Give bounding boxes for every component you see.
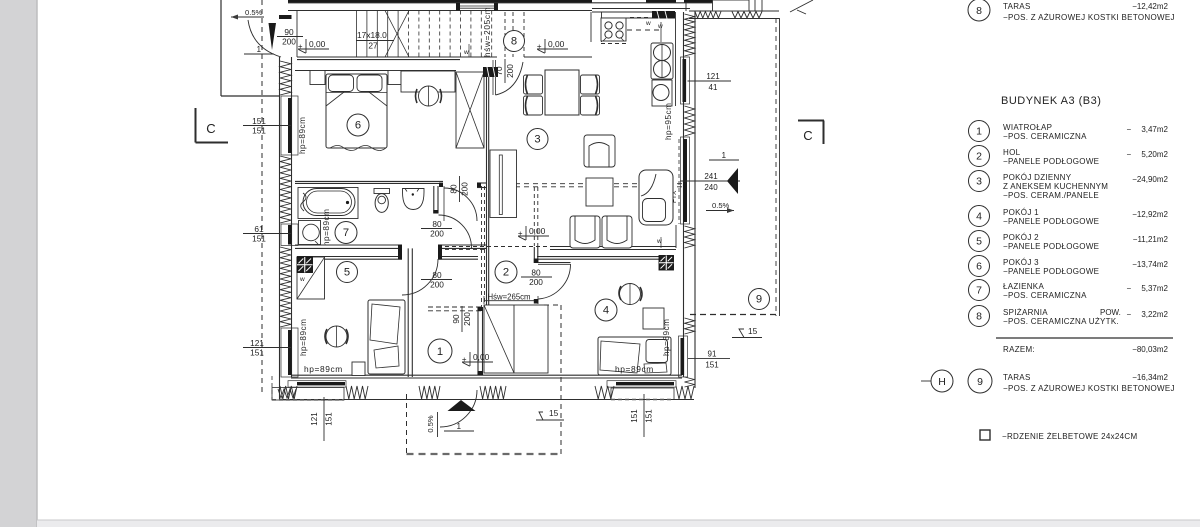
legend row2 hol [969,146,990,167]
bath toilet [374,189,390,194]
svg-text:0.5%: 0.5% [712,201,730,210]
living chair tl [524,75,543,94]
top wall black band seg2 [646,0,676,3]
left wall outer line [279,57,281,400]
terrace 15 dim [732,337,762,339]
kitchen window dim 121/41 [688,80,732,82]
svg-text:w: w [645,20,651,27]
right wall corner jamb [675,225,677,248]
room5 door arc [402,259,438,295]
bottom wall hatch seg4 [480,386,506,399]
terrace top pillar block [713,0,750,11]
svg-text:8: 8 [976,311,982,323]
svg-text:−POS. CERAMICZNA: −POS. CERAMICZNA [1003,291,1087,300]
kitchen counter dashes [627,29,663,31]
living coffee table [586,178,613,206]
stair top window caps [456,3,460,11]
svg-text:5: 5 [976,236,982,248]
svg-text:hp=89cm: hp=89cm [304,364,343,374]
svg-text:POW.: POW. [1100,308,1121,317]
svg-text:17x18.0: 17x18.0 [357,30,387,40]
bath-hall wall [433,186,435,214]
window box below room4 [611,388,674,400]
room6 desk [401,71,455,92]
room5 bed [368,300,405,374]
svg-text:−13,74m2: −13,74m2 [1132,260,1168,269]
hall dashed beam vertical [481,186,483,307]
room4 circle [595,299,617,321]
svg-text:TARAS: TARAS [1003,2,1031,11]
dim 121/151 below left [323,397,325,441]
legend row8 spizarnia [969,306,990,327]
bath washer [299,221,321,245]
terrace threshold dim 241/240 [680,180,740,182]
svg-text:151: 151 [252,116,266,126]
living dining table [545,70,579,115]
living armchair 1 [570,216,600,248]
kitchen counter top line [602,17,676,19]
svg-text:−12,92m2: −12,92m2 [1132,210,1168,219]
room6 bed [326,74,387,148]
svg-text:w: w [463,49,469,56]
left wall window room6 frame [281,96,298,155]
legend row5 pokoj2 [969,231,990,252]
svg-text:80: 80 [432,219,442,229]
svg-text:3: 3 [534,134,540,146]
svg-text:15: 15 [549,408,559,418]
legend sum line [996,337,1173,339]
room1 circle [428,339,452,363]
legend top taras 8 circle [968,0,990,21]
black vent block hall top [483,67,498,77]
roof overhang dashed line left [261,0,263,392]
svg-text:0,00: 0,00 [548,39,565,49]
svg-text:7: 7 [976,285,982,297]
entrance door arc [440,390,477,427]
svg-text:0.5%: 0.5% [245,8,263,17]
svg-text:3: 3 [976,176,982,188]
svg-text:200: 200 [505,64,515,78]
bath-room5 wall [295,244,402,246]
room4 door leaf+arc [538,262,571,264]
bottom wall hatch seg1 [280,386,297,399]
room6 bottom wall cap [439,183,443,187]
svg-text:ŁAZIENKA: ŁAZIENKA [1003,282,1044,291]
room4 top wall [537,256,673,258]
svg-text:80: 80 [531,268,541,278]
room6 wardrobe [456,72,484,148]
svg-text:HOL: HOL [1003,148,1021,157]
svg-text:−16,34m2: −16,34m2 [1132,373,1168,382]
room6 bottom wall [295,180,443,182]
svg-text:61: 61 [254,224,264,234]
room5 round table [326,326,347,347]
svg-text:hśw=205cm: hśw=205cm [483,7,492,57]
svg-text:151: 151 [252,234,266,244]
svg-text:−POS. CERAMICZNA: −POS. CERAMICZNA [1003,132,1087,141]
living beam dashes [497,183,682,185]
terrace datum 1 [710,159,712,161]
legend row4 pokoj1 [969,206,990,227]
terrace threshold triangle [727,168,738,194]
svg-text:−24,90m2: −24,90m2 [1132,175,1168,184]
room1 right wall [477,307,479,375]
svg-text:240: 240 [704,183,718,192]
svg-text:TARAS: TARAS [1003,373,1031,382]
room1 closet [484,305,548,373]
svg-text:1: 1 [976,126,982,138]
svg-text:80: 80 [448,184,458,194]
svg-text:−PANELE PODŁOGOWE: −PANELE PODŁOGOWE [1003,242,1099,251]
pantry door leaf [492,60,494,95]
svg-text:hp=89cm: hp=89cm [662,319,671,356]
terrace top wall hatch [689,10,779,12]
room5 door opening wall stub [438,244,486,246]
svg-text:8: 8 [511,36,517,48]
room4 desk [643,308,664,329]
svg-text:−POS. Z AŻUROWEJ KOSTKI BETONO: −POS. Z AŻUROWEJ KOSTKI BETONOWEJ [1003,13,1175,22]
legend rdzenie [980,430,990,440]
svg-text:1: 1 [457,422,462,431]
left wall window bath frame [281,224,298,246]
living sofa [639,170,673,225]
svg-text:POKÓJ 2: POKÓJ 2 [1003,233,1039,242]
kitchen sink unit [652,80,672,106]
staircase treads [356,11,358,58]
pantry right wall [590,12,592,42]
svg-text:−12,42m2: −12,42m2 [1132,2,1168,11]
legend row3 pokoj dzienny [969,171,990,192]
kitchen stove [601,18,626,41]
legend row1 wiatrolap [969,121,990,142]
svg-text:w: w [657,23,663,30]
room6 chair [419,86,439,106]
terrace 9 right edge [779,18,781,316]
porch outline bottom [221,95,280,97]
right wall kitchen window [681,57,690,104]
room5-room1 wall [407,248,409,377]
right wall FTX glazing [681,137,690,224]
svg-text:90: 90 [451,314,461,324]
legend H circle [921,380,931,382]
svg-text:41: 41 [709,83,718,92]
room4 left wall [533,247,535,263]
porch entry door leaf [269,23,277,50]
svg-text:hp=89cm: hp=89cm [299,319,308,356]
svg-text:200: 200 [529,277,543,287]
bottom wall hatch seg5 [595,386,614,399]
bath sink [403,189,425,210]
bottom wall outer line [279,399,694,401]
section marker C left [195,108,197,143]
svg-text:Hśw=265cm: Hśw=265cm [487,293,530,302]
svg-text:2: 2 [976,151,982,163]
svg-text:90: 90 [284,27,294,37]
svg-text:WIATROŁAP: WIATROŁAP [1003,123,1052,132]
svg-text:151: 151 [630,409,639,423]
left wall inner line [291,57,293,377]
living circle 3 [527,129,548,150]
svg-text:4: 4 [603,305,609,317]
room5 corner wardrobe [297,257,325,299]
svg-text:5: 5 [344,267,350,279]
svg-text:−: − [1127,284,1132,293]
bottom wall inner line [291,374,682,376]
bottom wall window room5 [288,381,346,387]
svg-text:3,47m2: 3,47m2 [1141,125,1168,134]
svg-text:1: 1 [437,346,443,358]
svg-text:5,20m2: 5,20m2 [1141,150,1168,159]
living sideboard [490,150,517,218]
room6 nightstand right [388,71,401,85]
svg-text:151: 151 [705,361,719,370]
svg-text:RAZEM:: RAZEM: [1003,345,1035,354]
room4 core black [659,256,674,271]
svg-text:hp=95cm: hp=95cm [664,103,673,140]
svg-text:−POS. CERAM./PANELE: −POS. CERAM./PANELE [1003,191,1099,200]
pantry door arc [496,62,524,95]
top wall inner line kitchen [592,8,690,10]
entrance datum 1 [445,430,447,432]
room6 nightstand left [310,71,325,85]
svg-text:9: 9 [977,376,983,388]
svg-text:0,00: 0,00 [309,39,326,49]
svg-text:6: 6 [976,261,982,273]
top wall outer line [288,2,717,4]
room4 bed [598,337,671,375]
staircase left wall line [296,11,298,58]
svg-text:151: 151 [325,412,334,426]
room5 nightstand [352,362,365,376]
svg-text:hp=89cm: hp=89cm [298,117,307,154]
svg-text:2: 2 [503,267,509,279]
hall lintel dashes [428,306,537,308]
room circle 8 [504,31,525,52]
top wall black band seg1 [288,0,592,3]
living armchair top [584,135,615,167]
right wall hatch seg5 [685,318,695,334]
bottom wall hatch seg6 [676,386,694,399]
svg-text:BUDYNEK A3 (B3): BUDYNEK A3 (B3) [1001,95,1101,107]
svg-text:0,00: 0,00 [473,352,490,362]
bathtub [303,189,355,216]
svg-text:151: 151 [250,348,264,358]
svg-text:Z ANEKSEM KUCHENNYM: Z ANEKSEM KUCHENNYM [1003,182,1108,191]
svg-text:−11,21m2: −11,21m2 [1133,235,1169,244]
svg-text:9: 9 [756,294,762,306]
svg-text:−: − [1127,125,1132,134]
hall dashed beam horizontal [438,246,550,248]
svg-text:4: 4 [976,211,982,223]
svg-text:80: 80 [432,270,442,280]
hall-living wall [486,77,488,307]
svg-text:POKÓJ 1: POKÓJ 1 [1003,208,1039,217]
right wall hatch seg1 kitchen [685,14,695,56]
left wall cap top [279,15,292,19]
svg-text:151: 151 [252,126,266,136]
room6 bed pillows [329,75,354,92]
kitchen vent black block [652,11,675,19]
svg-text:−: − [1127,150,1132,159]
bath surround [298,188,358,219]
svg-text:−POS. CERAMICZNA UŻYTK.: −POS. CERAMICZNA UŻYTK. [1003,317,1119,326]
svg-text:−PANELE PODŁOGOWE: −PANELE PODŁOGOWE [1003,267,1099,276]
svg-text:200: 200 [430,280,444,290]
kitchen fridge [651,43,673,79]
living chair bl [524,96,543,115]
living armchair 2 [602,216,632,248]
svg-text:27: 27 [368,41,378,51]
svg-text:200: 200 [282,37,296,47]
svg-text:C: C [206,121,215,136]
pantry dashed side lines [504,12,506,57]
svg-text:−80,03m2: −80,03m2 [1132,345,1168,354]
svg-text:200: 200 [430,229,444,239]
section marker C right [798,120,824,122]
svg-text:SPIŻARNIA: SPIŻARNIA [1003,308,1048,317]
right wall hatch seg3 [685,226,695,248]
svg-text:−PANELE PODŁOGOWE: −PANELE PODŁOGOWE [1003,157,1099,166]
bottom wall hatch seg2 [346,386,368,399]
staircase corridor bottom wall [297,56,497,58]
right wall room4 window [679,336,688,377]
porch outline left wall [220,0,222,96]
room5 circle [337,262,358,283]
dim 91/151 right [688,358,730,360]
svg-text:91: 91 [708,350,717,359]
right wall inner line [683,12,685,377]
svg-text:−RDZENIE ŻELBETOWE 24x24CM: −RDZENIE ŻELBETOWE 24x24CM [1002,432,1137,441]
svg-text:H: H [938,376,946,388]
bottom gray bar [37,520,1200,527]
svg-text:POKÓJ DZIENNY: POKÓJ DZIENNY [1003,173,1072,182]
top wall inner line stair [288,10,592,12]
svg-text:151: 151 [645,409,654,423]
hall circle 2 [495,261,517,283]
svg-text:6: 6 [355,120,361,132]
porch bottom dashed outline [406,394,408,454]
datum 1 marker porch [245,53,247,55]
legend row6 pokoj3 [969,256,990,277]
svg-text:0.5%: 0.5% [426,415,435,433]
cutoff dim text top right [790,0,813,12]
dim 151 151 below room4 window [643,394,645,437]
svg-text:1: 1 [722,151,727,160]
svg-text:8: 8 [976,5,982,17]
svg-text:POKÓJ 3: POKÓJ 3 [1003,258,1039,267]
legend row7 lazienka [969,280,990,301]
svg-text:7: 7 [343,227,349,239]
living chair tr [581,75,600,94]
right wall outer line [694,11,696,388]
right wall hatch seg6 [685,377,695,387]
svg-text:15: 15 [748,326,758,336]
svg-text:121: 121 [706,72,720,81]
svg-text:241: 241 [704,172,718,181]
room6 top line [295,70,456,72]
svg-text:200: 200 [462,312,472,326]
svg-text:5,37m2: 5,37m2 [1141,284,1168,293]
svg-text:121: 121 [250,338,264,348]
terrace 9 circle [749,289,770,310]
terrace 9 bottom edge [690,314,780,316]
entrance door triangle [448,400,476,411]
top wall black band seg3 [684,0,713,3]
svg-text:C: C [803,128,812,143]
svg-text:w: w [299,276,305,283]
staircase break X [385,11,409,58]
svg-text:−: − [1127,310,1132,319]
svg-text:200: 200 [460,182,470,196]
svg-text:−PANELE PODŁOGOWE: −PANELE PODŁOGOWE [1003,217,1099,226]
svg-text:−POS. Z AŻUROWEJ KOSTKI BETONO: −POS. Z AŻUROWEJ KOSTKI BETONOWEJ [1003,384,1175,393]
dim 15 right of porch [536,419,564,421]
room6 bed blanket fold [326,92,344,106]
left wall hatch seg1 [280,61,291,95]
left wall hatch seg2 [280,156,291,223]
room4 round table [620,284,641,305]
svg-text:121: 121 [310,412,319,426]
right wall hatch seg2 [685,106,695,136]
window box below room5 [272,388,344,401]
legend row9 taras [968,369,992,393]
bathroom door arc [439,215,472,248]
svg-text:3,22m2: 3,22m2 [1141,310,1168,319]
bottom wall hatch seg3 [419,386,440,399]
bath circle 7 [335,222,357,244]
svg-text:hp=89cm: hp=89cm [322,209,331,246]
bottom wall window room4 [607,381,676,387]
left wall hatch seg3 [280,247,291,327]
left wall window room5 frame [281,328,298,377]
svg-text:0,00: 0,00 [529,226,546,236]
room4 left wall dashed up [533,187,535,246]
porch entry door arc [248,20,281,57]
room6 door arc [444,188,477,221]
svg-text:hp=89cm: hp=89cm [615,364,654,374]
left gray gutter [0,0,37,527]
room5 core black [297,257,313,273]
room6 circle [347,114,369,136]
living chair br [581,96,600,115]
